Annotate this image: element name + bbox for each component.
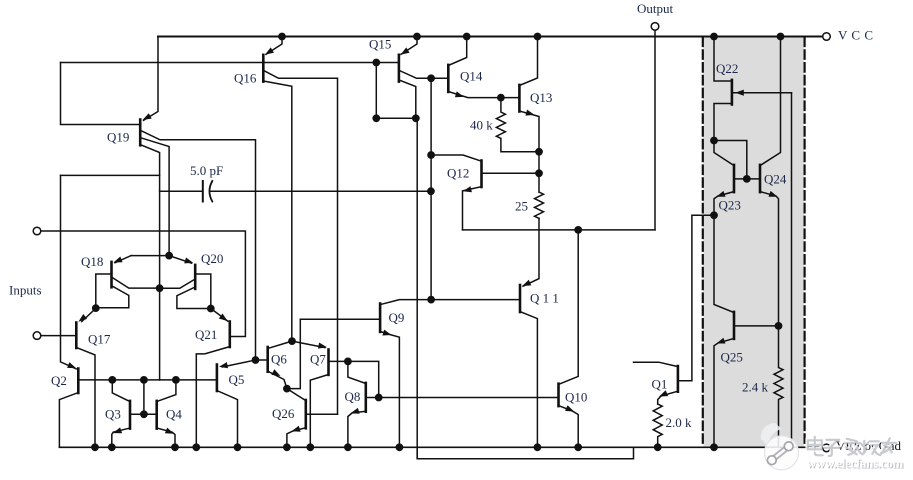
watermark logo <box>761 423 905 471</box>
svg-text:Q15: Q15 <box>369 37 391 52</box>
node base rail / feedback tap <box>372 59 380 67</box>
svg-text:Q2: Q2 <box>51 373 67 388</box>
wire Q22 base to Q23/Q24 bases <box>714 141 747 179</box>
resistor R2 25 <box>535 192 544 218</box>
node Q3 collector / base rail <box>108 376 116 384</box>
arrow Q5 emitter <box>219 362 228 368</box>
svg-text:Q13: Q13 <box>530 90 552 105</box>
arrow Q9 emitter <box>382 330 391 336</box>
node Q21 collector / VEE rail <box>192 443 200 451</box>
wire Q19 collector1 to node x255 <box>141 131 256 361</box>
resistor R4 2.4k <box>774 326 783 447</box>
svg-text:2.4 k: 2.4 k <box>742 380 769 395</box>
node Q4 collector / base rail <box>172 376 180 384</box>
svg-text:2.0 k: 2.0 k <box>666 415 693 430</box>
transistor Q23 <box>733 165 736 192</box>
arrow Q2 emitter <box>67 362 76 368</box>
arrow Q15 emitter <box>401 47 410 54</box>
node Q22 collector / VCC rail <box>710 33 718 41</box>
svg-text:Output: Output <box>637 1 674 16</box>
wire output node rail y229.9 <box>463 229 656 231</box>
arrow Q24 emitter <box>769 191 778 197</box>
svg-text:Q4: Q4 <box>166 407 182 422</box>
transistor Q21 <box>229 322 232 348</box>
node Q16 emitter / VCC rail <box>278 33 286 41</box>
transistor Q1 <box>677 366 680 392</box>
node Q6 emitter / Q26 collector / Q9 base <box>283 385 291 393</box>
node Q26 emitter / VEE rail <box>283 443 291 451</box>
node Q4 emitter / VEE rail <box>171 443 179 451</box>
VCC top rail <box>158 36 823 38</box>
transistor Q12 <box>480 161 483 188</box>
node Q9 collector / Q11 base <box>427 296 435 304</box>
VCC terminal <box>823 33 831 41</box>
node Q8 emitter / VEE rail <box>344 443 352 451</box>
svg-text:Q21: Q21 <box>195 327 217 342</box>
node Q16 collector / Q6-Q7 emitters <box>288 337 296 345</box>
node feedback link right <box>412 114 420 122</box>
transistor Q8 <box>364 383 367 412</box>
arrow Q7 emitter <box>318 343 327 349</box>
output terminal <box>651 23 659 31</box>
VEE terminal <box>823 444 831 452</box>
node Q23/Q24 base tie <box>743 175 751 183</box>
wire Q13 emitter chain x539 <box>538 152 540 192</box>
svg-text:5.0 pF: 5.0 pF <box>190 163 223 178</box>
svg-text:Q10: Q10 <box>565 390 587 405</box>
svg-text:Inputs: Inputs <box>9 283 42 298</box>
wire long feedback vertical x417 <box>416 118 418 459</box>
wire compensation cap right <box>210 190 431 192</box>
transistor Q19 base bar <box>139 120 142 146</box>
arrow Q16 emitter <box>265 47 274 54</box>
wire Q22 emitter down x791 <box>791 93 793 447</box>
transistor Q20 <box>194 265 197 289</box>
node Q19 collector / Q5 emitter / Q6 base <box>252 356 260 364</box>
transistor Q16 <box>262 55 265 82</box>
transistor Q2 <box>77 369 80 394</box>
node Q24 collector / VCC rail <box>777 33 785 41</box>
wire Q9 base riser <box>287 319 379 388</box>
wire compensation cap left <box>160 190 203 192</box>
wire input2 to Q17 base <box>41 335 76 337</box>
node feedback link left <box>372 114 380 122</box>
svg-text:Q14: Q14 <box>460 69 483 84</box>
arrow Q14 emitter <box>455 91 464 97</box>
capacitor C1 5.0pF <box>202 181 204 202</box>
wire base rail y62.5 Q16-Q15 <box>61 63 140 125</box>
node Q3/Q4 base tie <box>140 410 148 418</box>
resistor R3 2.0k <box>653 404 662 447</box>
bottom VEE rail <box>59 446 819 448</box>
node Q8 base / Q10 base wire <box>375 394 383 402</box>
svg-text:Q9: Q9 <box>389 310 405 325</box>
node Q12 base / 25 ohm top <box>535 169 543 177</box>
arrow Q19 emitter <box>143 113 152 120</box>
node Q7 base / Q8 collector <box>344 358 352 366</box>
node Q23 emitter / Q25 collector / Q1 base <box>710 211 718 219</box>
node Q3 emitter / VEE rail <box>108 443 116 451</box>
svg-text:Q1: Q1 <box>652 377 668 392</box>
arrow Q23 emitter <box>716 191 725 197</box>
svg-text:Q24: Q24 <box>764 172 787 187</box>
arrow Q26 emitter <box>292 426 301 432</box>
node Q25 emitter / VEE rail <box>710 443 718 451</box>
transistor Q11 <box>519 285 522 312</box>
arrow Q3 emitter <box>113 427 122 433</box>
transistor Q17 <box>75 323 78 349</box>
node Q18/Q20 emitter tie <box>165 252 173 260</box>
svg-text:25: 25 <box>515 199 528 214</box>
svg-text:Q3: Q3 <box>105 407 121 422</box>
transistor Q7 <box>327 350 330 375</box>
svg-text:40 k: 40 k <box>470 118 493 133</box>
svg-text:Q23: Q23 <box>719 198 741 213</box>
svg-text:Q12: Q12 <box>447 166 469 181</box>
wire 25ohm to Q11 emitter <box>523 218 539 286</box>
node Q10 emitter / VEE rail <box>574 443 582 451</box>
feedback return line lower <box>417 447 633 459</box>
svg-text:Q18: Q18 <box>81 254 103 269</box>
node Q13 emitter / 40k bottom <box>535 148 543 156</box>
transistor Q24 <box>759 165 762 192</box>
transistor Q13 <box>518 85 521 112</box>
transistor Q9 <box>379 304 382 332</box>
wire Q9 collector to Q11 base <box>380 300 519 305</box>
arrow Q22 emitter <box>735 90 744 96</box>
node Q22 base / Q23 collector <box>710 137 718 145</box>
svg-text:Q26: Q26 <box>272 406 295 421</box>
wire Q18/Q20 emitter rail <box>131 255 169 257</box>
wire Q5 emitter node to Q6 base <box>256 359 267 361</box>
node Q20 collector / Q21 emitter <box>207 305 215 313</box>
transistor Q15 <box>398 55 401 82</box>
input terminal non-inverting <box>33 332 41 340</box>
wire x431 vertical <box>430 78 432 299</box>
node Q7 collector / VEE rail <box>306 443 314 451</box>
node Q5 collector / VEE rail <box>234 443 242 451</box>
node 2.0k / VEE rail <box>654 443 662 451</box>
node Q15 emitter / VCC rail <box>413 33 421 41</box>
arrow Q8 emitter <box>351 408 360 414</box>
transistor Q3 <box>129 401 132 429</box>
wire Q2/Q5 base rail y380 <box>80 379 217 381</box>
node Q13 collector / VCC rail <box>534 33 542 41</box>
node Q3-Q4 base riser <box>140 376 148 384</box>
arrow Q21 emitter <box>219 314 228 322</box>
transistor Q14 <box>447 65 450 92</box>
node Q17 collector / VEE rail <box>91 443 99 451</box>
svg-text:Q22: Q22 <box>716 61 738 76</box>
arrow Q17 emitter <box>78 314 87 322</box>
svg-text:www.elecfans.com: www.elecfans.com <box>807 455 904 470</box>
node Q14 emitter / Q13 base / 40k <box>497 94 505 102</box>
node Q11 emitter / VEE rail <box>534 443 542 451</box>
node Q15-Q14 base wire tap <box>427 74 435 82</box>
node Q18/Q20 base tie / cap line <box>156 284 164 292</box>
arrow Q11 emitter <box>522 280 531 286</box>
svg-text:Q20: Q20 <box>201 251 223 266</box>
svg-text:Q7: Q7 <box>310 352 326 367</box>
shaded output-stage region <box>704 37 805 447</box>
node Q12 collector tap <box>427 151 435 159</box>
wire input1 to Q21 base <box>41 231 246 337</box>
arrow Q1 emitter <box>659 390 668 396</box>
dashed boundary left <box>702 38 704 448</box>
svg-text:Q19: Q19 <box>107 130 129 145</box>
node compensation cap right <box>427 187 435 195</box>
wire x60 down to Q2 emitter <box>61 175 77 369</box>
wire Q3/Q4 base tie <box>131 413 155 415</box>
arrow Q6 emitter <box>271 369 280 376</box>
arrow Q12 emitter <box>463 186 472 192</box>
resistor R1 40k <box>496 98 539 152</box>
arrow Q18 emitter <box>113 257 122 263</box>
transistor Q26 <box>304 400 307 428</box>
input terminal inverting <box>33 227 41 235</box>
transistor Q10 <box>557 384 560 406</box>
transistor Q18 <box>110 262 113 287</box>
node Q9 emitter / VEE rail <box>396 443 404 451</box>
svg-text:Q6: Q6 <box>271 352 287 367</box>
wire Q19 emitter from rail <box>144 37 159 121</box>
node Q14 collector / VCC rail <box>463 33 471 41</box>
arrow Q25 emitter <box>716 338 725 344</box>
transistor Q22 <box>731 80 734 105</box>
node Q18 collector / Q17 emitter <box>92 304 100 312</box>
dashed boundary right <box>803 38 805 448</box>
svg-text:Q5: Q5 <box>229 372 245 387</box>
arrow Q10 emitter <box>565 405 574 411</box>
svg-text:Q17: Q17 <box>88 332 111 347</box>
transistor Q25 <box>733 312 736 339</box>
transistor Q4 <box>155 401 158 429</box>
wire Q19 collector2 to x169 <box>141 138 169 256</box>
arrow Q13 emitter <box>525 110 534 116</box>
arrowheads <box>67 47 778 433</box>
node Q25 base / Q24 emitter / 2.4k <box>775 322 783 330</box>
wire y175 branch <box>61 174 160 176</box>
node output wire / Q10 collector <box>574 226 582 234</box>
svg-text:Q8: Q8 <box>345 389 361 404</box>
svg-text:Q16: Q16 <box>234 71 257 86</box>
svg-text:V C C: V C C <box>838 28 874 43</box>
wire Q19 collector3 down x159.6 <box>141 145 160 380</box>
transistor Q5 <box>216 365 219 392</box>
svg-text:Q25: Q25 <box>721 350 743 365</box>
svg-text:Q 1 1: Q 1 1 <box>530 291 559 306</box>
transistor Q6 <box>266 347 269 372</box>
arrow Q4 emitter <box>165 428 174 434</box>
wire feedback top link <box>375 63 377 119</box>
wire output vertical <box>654 30 656 230</box>
arrow Q20 emitter <box>184 258 193 264</box>
